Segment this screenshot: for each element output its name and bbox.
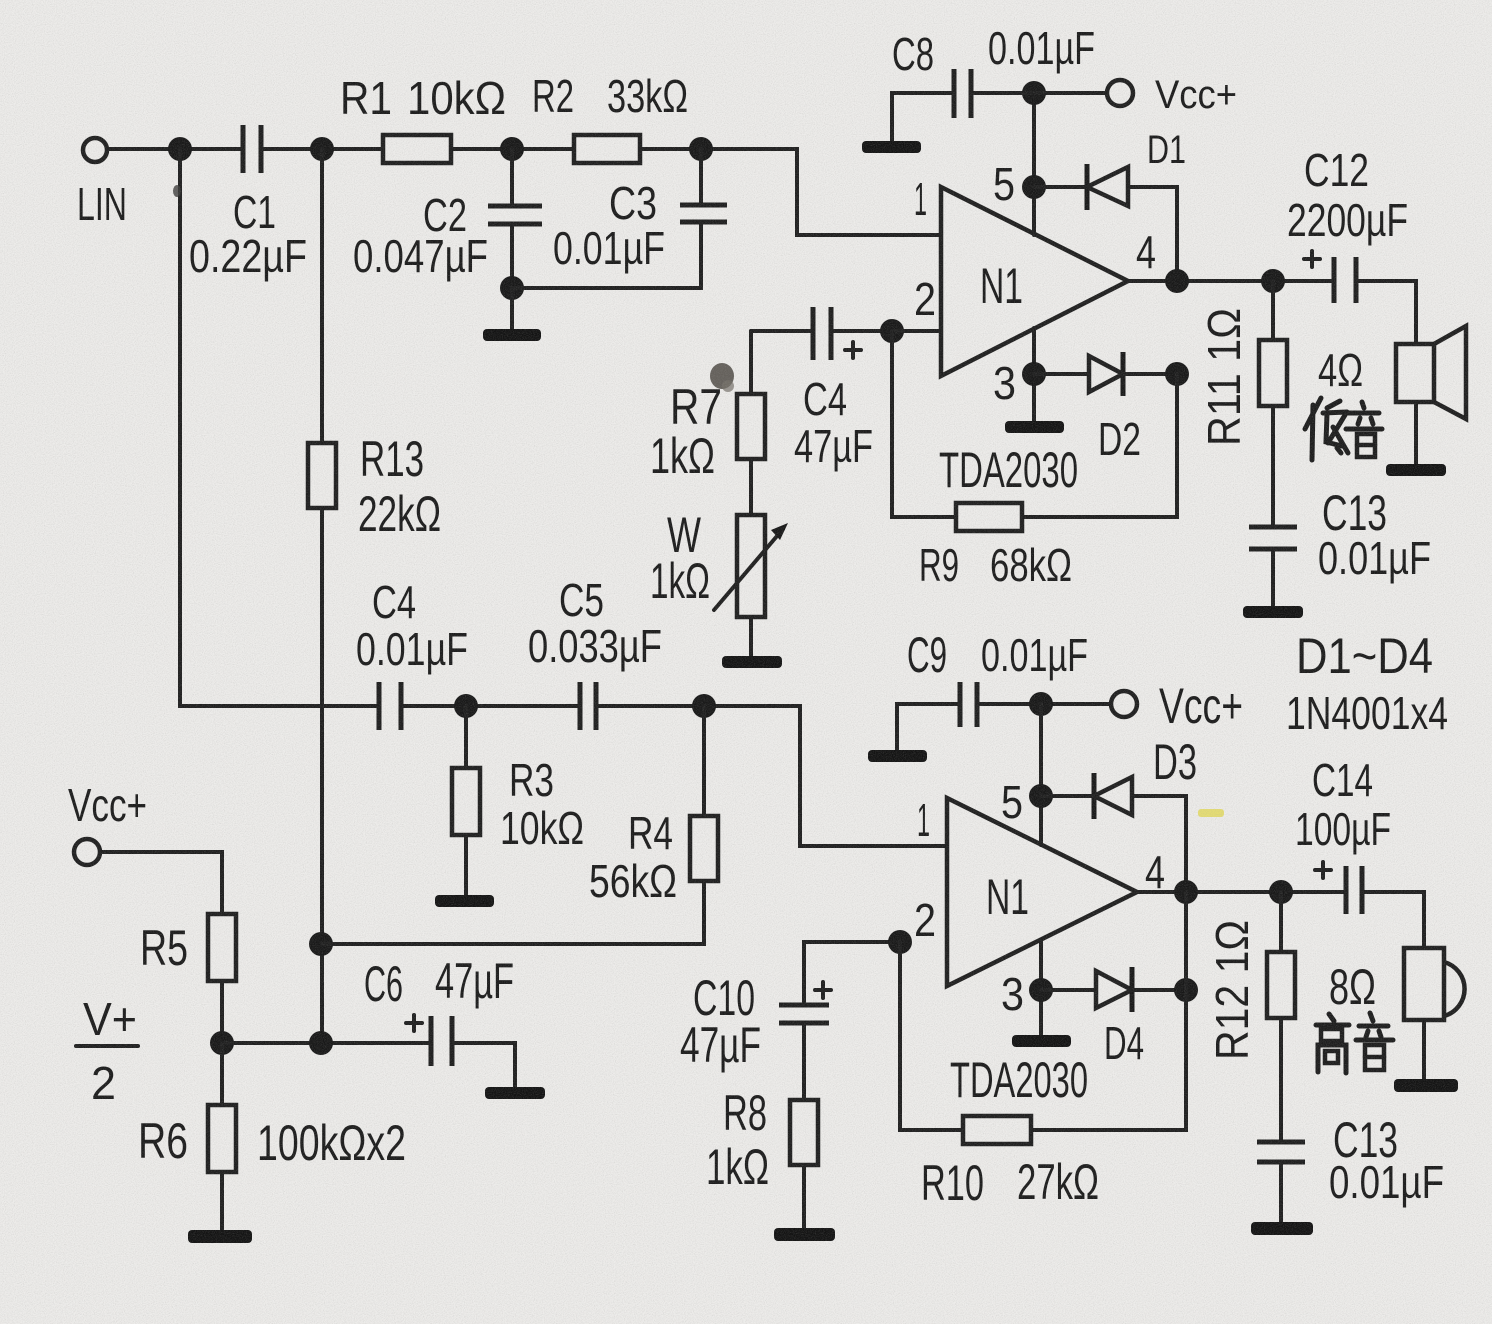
diode D1 wire from pin5 bbox=[1034, 185, 1087, 189]
yellow highlighter speck near D3 bbox=[1198, 809, 1224, 817]
wire: R8 to ground bbox=[802, 1165, 806, 1228]
label 高音 (tweeter) char 高 bbox=[1316, 1014, 1349, 1073]
wire: stem junction to C2 bbox=[510, 149, 514, 206]
capacitor C4 47µF electrolytic bbox=[811, 307, 816, 360]
wire: W to ground bbox=[749, 617, 753, 656]
ground below C13 lower bbox=[1251, 1222, 1313, 1235]
node: output/R11 junction bbox=[1261, 269, 1285, 293]
wire: V+/2 rail bbox=[222, 1041, 430, 1045]
wire: LIN branch down and right to C4 bbox=[180, 149, 379, 706]
polarity + of C6 bbox=[406, 1015, 422, 1031]
node: pin 2 junction upper amp bbox=[880, 319, 904, 343]
node: C8/Vcc junction bbox=[1022, 81, 1046, 105]
speaker 8Ω tweeter bbox=[1404, 948, 1444, 1020]
ground below speaker bbox=[1386, 464, 1446, 476]
wire: D4 to output column bbox=[1132, 988, 1186, 992]
capacitor C13 lower bbox=[1257, 1140, 1305, 1145]
node: pin 3 / D2 junction bbox=[1022, 362, 1046, 386]
wire: R7 top to C4 electrolytic bbox=[751, 329, 813, 333]
wire: C8 left to ground corner bbox=[892, 93, 954, 141]
capacitor C14 electrolytic bbox=[1344, 866, 1349, 914]
ground below C2 bbox=[510, 288, 514, 329]
wire: C13 lower to ground bbox=[1279, 1162, 1283, 1222]
wire: R1 to R2 bbox=[451, 147, 574, 151]
wire: R4 bottom left to R13 column bbox=[322, 881, 704, 944]
wire: C9 to Vcc terminal lower bbox=[977, 702, 1111, 706]
wire: pin 3 vertical bbox=[1032, 328, 1036, 421]
wire: C3 bottom to ground junction bbox=[512, 222, 701, 288]
capacitor C8 bbox=[952, 69, 957, 118]
resistor R5 bbox=[208, 914, 236, 981]
resistor R10 bbox=[963, 1116, 1031, 1144]
wire: speaker to ground bbox=[1414, 402, 1418, 464]
capacitor C2 bbox=[488, 204, 542, 209]
wire: C6 to ground corner bbox=[452, 1043, 515, 1087]
wire: pin2 junction to C10 corner bbox=[804, 942, 900, 1003]
node: V+/2 / R13 column junction bbox=[309, 1031, 333, 1055]
node: C2/C3 ground junction bbox=[500, 276, 524, 300]
capacitor C10 electrolytic bbox=[779, 1003, 829, 1008]
capacitor C9 bbox=[958, 682, 963, 727]
node: R1/R2/C2 junction bbox=[500, 137, 524, 161]
wire: C13 to ground bbox=[1271, 549, 1275, 606]
ground at C6 bbox=[485, 1087, 545, 1099]
node: C1/R1/R13 junction bbox=[310, 137, 334, 161]
wire: R3 to ground bbox=[464, 835, 468, 895]
wire: top signal rail LIN to C1 bbox=[107, 147, 243, 151]
potentiometer W bbox=[737, 515, 765, 617]
resistor R6 bbox=[208, 1105, 236, 1172]
label 高音 (tweeter) char 音 bbox=[1356, 1013, 1393, 1070]
wire: R9 to output column bbox=[1022, 374, 1177, 517]
resistor R3 bbox=[452, 768, 480, 835]
wire: speaker to ground bbox=[1422, 1020, 1426, 1079]
wire: C2 to ground node bbox=[510, 224, 514, 288]
wire: output of upper N1 to C12 bbox=[1128, 279, 1334, 283]
diode D4 wire bbox=[1041, 988, 1096, 992]
wire: output of lower N1 to C14 bbox=[1137, 890, 1346, 894]
wire: C9 left to ground corner bbox=[897, 704, 960, 750]
node: R3 junction bbox=[454, 694, 478, 718]
diode D3 wire bbox=[1041, 794, 1094, 798]
wire: R5 to V+/2 rail bbox=[220, 981, 224, 1043]
wire: C5 to corner to pin 1 of lower N1 bbox=[596, 706, 947, 846]
wire: C14 to speaker bbox=[1362, 892, 1424, 948]
terminal Vcc+ lower bbox=[1111, 691, 1137, 717]
ground below W bbox=[722, 656, 782, 668]
wire: C1 to R1 bbox=[261, 147, 383, 151]
diode D1 bbox=[1085, 164, 1090, 210]
label 低音 (woofer) char 低 bbox=[1305, 398, 1348, 460]
potentiometer W arrow bbox=[714, 529, 783, 610]
ground at C8 bbox=[862, 141, 921, 153]
wire: C4 to pin 2 junction bbox=[831, 329, 892, 333]
node: R4 junction bbox=[692, 694, 716, 718]
node: pin5/D3 junction lower bbox=[1029, 784, 1053, 808]
wire: stem to R4 bbox=[702, 706, 706, 816]
diode D2 bbox=[1089, 356, 1123, 392]
speaker 4Ω woofer bbox=[1396, 344, 1434, 402]
resistor R13 bbox=[308, 443, 336, 508]
capacitor C1 bbox=[241, 125, 246, 173]
wire: C4 to C5 bbox=[401, 704, 580, 708]
wire: C10 to R8 bbox=[802, 1023, 806, 1100]
node: output/R12 junction bbox=[1269, 880, 1293, 904]
resistor R7 bbox=[737, 394, 765, 459]
ink blotch artifact near R7 bbox=[710, 363, 734, 389]
resistor R11 bbox=[1259, 340, 1287, 406]
node: R13/R4-return junction bbox=[309, 932, 333, 956]
terminal Vcc+ upper bbox=[1107, 80, 1133, 106]
wire: D3 to output column lower bbox=[1132, 796, 1186, 892]
polarity + of C4 bbox=[845, 342, 861, 358]
wire: R12 to C13 lower bbox=[1279, 1018, 1283, 1142]
input terminal LIN bbox=[83, 138, 107, 162]
ground below R3 bbox=[435, 895, 494, 907]
ground at C9 bbox=[868, 750, 927, 762]
resistor R1 bbox=[383, 135, 451, 163]
wire: feedback from pin 2 down to R9 bbox=[892, 331, 956, 517]
resistor R12 bbox=[1267, 952, 1295, 1018]
node: R2/C3 junction bbox=[689, 137, 713, 161]
wire: R2 to corner then pin 1 of upper N1 bbox=[640, 149, 941, 235]
polarity + of C10 bbox=[815, 982, 831, 998]
node: D4/output column junction bbox=[1174, 978, 1198, 1002]
capacitor C12 electrolytic bbox=[1332, 257, 1337, 303]
wire: pin 3 vertical lower bbox=[1039, 940, 1043, 1035]
wire: rail to R6 bbox=[220, 1043, 224, 1105]
ground at pin 3 upper bbox=[1005, 421, 1064, 433]
capacitor C3 bbox=[680, 203, 727, 208]
diode D4 bbox=[1096, 971, 1132, 1008]
ground below R6 bbox=[188, 1230, 252, 1243]
diode D2 wire bbox=[1034, 372, 1089, 376]
node: V+/2 junction left bbox=[210, 1031, 234, 1055]
resistor R11 stem bbox=[1271, 281, 1275, 340]
resistor R8 bbox=[790, 1100, 818, 1165]
wire: pin 5 vertical lower bbox=[1039, 704, 1043, 845]
polarity + of C14 bbox=[1315, 862, 1331, 878]
resistor R4 bbox=[690, 816, 718, 881]
wire: pin 2 into upper N1 bbox=[892, 329, 941, 333]
wire: D1 to output column bbox=[1128, 187, 1177, 281]
terminal Vcc+ left bbox=[74, 839, 100, 865]
wire: C12 to speaker bbox=[1356, 281, 1416, 344]
ground below C13 bbox=[1243, 606, 1303, 618]
wire: R10 to output column lower bbox=[1031, 892, 1186, 1130]
capacitor C13 upper bbox=[1249, 525, 1297, 530]
wire: stem R2 junction down to C3 bbox=[699, 149, 703, 205]
node: pin 2 junction lower amp bbox=[888, 930, 912, 954]
wire: Vcc to R5 bbox=[100, 852, 222, 914]
node: output/D-column junction lower bbox=[1174, 880, 1198, 904]
ground at pin 3 lower bbox=[1012, 1035, 1071, 1047]
wire: pin 5 vertical to C8 rail bbox=[1032, 93, 1036, 235]
wire: feedback lower from pin2 to R10 bbox=[900, 942, 963, 1130]
scan noise overlay bbox=[0, 0, 1, 1]
capacitor C6 electrolytic bbox=[429, 1016, 434, 1066]
capacitor C5 bbox=[578, 682, 583, 730]
op-amp N1 upper (TDA2030) bbox=[941, 187, 1128, 376]
resistor R9 bbox=[956, 503, 1022, 531]
ground below 8Ω speaker bbox=[1394, 1079, 1458, 1092]
paper fleck on LIN wire bbox=[173, 185, 181, 197]
wire: C8 to Vcc terminal bbox=[971, 91, 1107, 95]
node: C9/pin5 junction lower bbox=[1029, 692, 1053, 716]
wire: R11 to C13 bbox=[1271, 406, 1275, 527]
wire: R13 down to V+/2 rail bbox=[320, 508, 324, 1043]
polarity + of C12 bbox=[1304, 251, 1320, 267]
node: input junction bbox=[168, 137, 192, 161]
wire: R7 top corner from C4(47µF) wire bbox=[749, 331, 753, 394]
resistor R2 bbox=[574, 135, 640, 163]
node: pin3/D4 junction bbox=[1029, 978, 1053, 1002]
node: pin 5 / D1 junction bbox=[1022, 175, 1046, 199]
diode D3 bbox=[1092, 773, 1097, 819]
resistor R12 stem bbox=[1279, 892, 1283, 952]
wire: stem to R3 bbox=[464, 706, 468, 768]
ground below R8 bbox=[774, 1228, 835, 1241]
capacitor C4 (0.01µF) bbox=[377, 682, 382, 730]
wire: R6 to ground bbox=[220, 1172, 224, 1230]
label 低音 (woofer) char 音 bbox=[1346, 402, 1382, 457]
node: D2/output column junction bbox=[1165, 362, 1189, 386]
op-amp N1 lower (TDA2030) bbox=[947, 798, 1137, 986]
wire: D2 to output column bbox=[1123, 372, 1177, 376]
wire: R13 branch from C1 junction down bbox=[320, 149, 324, 443]
node: output/D-column junction bbox=[1165, 269, 1189, 293]
wire: R7 to W bbox=[749, 459, 753, 515]
